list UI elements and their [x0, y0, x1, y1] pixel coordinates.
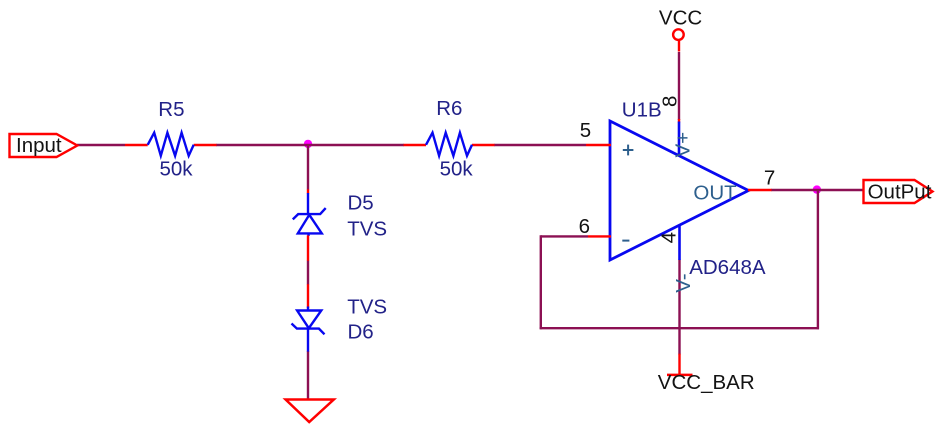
- svg-text:4: 4: [658, 232, 681, 243]
- svg-text:R5: R5: [158, 98, 184, 121]
- svg-text:VCC: VCC: [659, 6, 702, 29]
- wire D5 to D6: [307, 261, 309, 285]
- port OutPut: [864, 180, 933, 204]
- svg-text:OUT: OUT: [693, 181, 737, 204]
- wire R5 to node A: [216, 144, 308, 146]
- svg-text:U1B: U1B: [622, 99, 662, 122]
- op-amp U1B: [579, 96, 776, 293]
- svg-text:8: 8: [658, 96, 681, 107]
- wire node A down to D5: [307, 145, 309, 190]
- svg-text:50k: 50k: [160, 157, 194, 180]
- wire pin 6 horizontal: [541, 235, 588, 237]
- wire R6 to pin 5: [494, 144, 586, 146]
- resistor R6: [404, 97, 495, 180]
- svg-text:R6: R6: [436, 97, 462, 120]
- wire D6 to ground: [307, 351, 309, 400]
- node output junction: [813, 185, 821, 193]
- diode D6 TVS: [292, 284, 388, 351]
- resistor R5: [125, 98, 217, 180]
- svg-text:6: 6: [579, 215, 590, 238]
- svg-text:Input: Input: [16, 134, 62, 157]
- power VCC: [659, 6, 702, 51]
- ground: [286, 400, 334, 423]
- svg-text:D6: D6: [348, 321, 374, 344]
- svg-text:TVS: TVS: [347, 296, 387, 319]
- node A junction: [304, 140, 312, 148]
- svg-text:50k: 50k: [440, 157, 474, 180]
- svg-text:5: 5: [580, 119, 591, 142]
- wire pin 4 down: [678, 260, 680, 355]
- svg-text:OutPut: OutPut: [868, 181, 932, 204]
- svg-text:V+: V+: [671, 132, 694, 158]
- svg-text:7: 7: [764, 166, 775, 189]
- power VCC_BAR: [658, 354, 755, 394]
- svg-text:VCC_BAR: VCC_BAR: [658, 371, 755, 394]
- svg-text:TVS: TVS: [347, 217, 387, 240]
- wire feedback right vertical: [817, 190, 819, 329]
- svg-text:D5: D5: [348, 191, 374, 214]
- wire input to R5: [77, 144, 125, 146]
- svg-text:AD648A: AD648A: [689, 256, 766, 279]
- wire pin 7 to OutPut: [771, 189, 864, 191]
- wire feedback bottom: [540, 327, 819, 329]
- diode D5 TVS: [293, 189, 387, 260]
- wire feedback left vertical: [540, 235, 542, 329]
- wire node A to R6: [308, 144, 404, 146]
- port Input: [10, 134, 78, 157]
- wire VCC to pin 8: [678, 52, 680, 120]
